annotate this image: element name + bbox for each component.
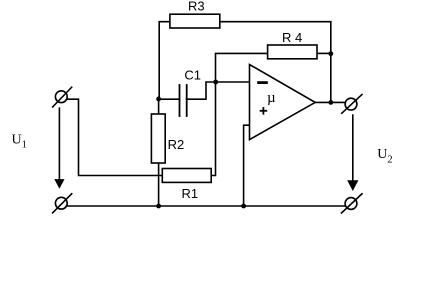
- resistor R1: [162, 169, 211, 183]
- capacitor C1: [180, 85, 187, 116]
- wire C1 right plate to op-amp inverting input: [187, 82, 250, 99]
- node A junction (R3/C1/R2): [156, 97, 161, 102]
- wire input terminal to R1 left lead: [67, 99, 163, 175]
- terminal input top-left: [55, 91, 67, 103]
- op-amp U1 triangle: [250, 65, 316, 140]
- wire node A to C1 left plate: [159, 98, 180, 100]
- terminal output top-right: [345, 98, 357, 110]
- wire R2 top lead: [158, 99, 160, 114]
- junction R2 to ground rail: [156, 204, 161, 209]
- svg-text:C1: C1: [184, 67, 201, 82]
- op-amp plus sign: [260, 107, 268, 115]
- svg-text:R 4: R 4: [282, 30, 302, 45]
- resistor R2: [151, 114, 165, 163]
- wire R4 right lead: [317, 52, 331, 54]
- terminal ground bottom-right: [345, 198, 357, 210]
- svg-text:R1: R1: [182, 186, 199, 201]
- arrowhead U1: [54, 179, 64, 189]
- junction inverting input node: [213, 80, 218, 85]
- wire R3 left lead down to node A: [159, 22, 170, 99]
- wire op-amp non-inverting input to ground rail: [244, 125, 250, 206]
- resistor R3: [170, 14, 220, 28]
- wire R2 bottom lead to ground rail: [158, 163, 160, 206]
- resistor R4: [268, 45, 317, 59]
- wire R3 right lead to output node: [220, 22, 331, 103]
- arrowhead U2: [347, 180, 358, 191]
- arrow U2: [352, 115, 354, 181]
- junction output node: [328, 100, 333, 105]
- terminal ground bottom-left: [55, 197, 67, 209]
- wire R4 left lead down to R1 right lead: [211, 53, 267, 175]
- op-amp minus sign: [257, 81, 268, 84]
- wire op-amp output: [315, 101, 345, 103]
- svg-text:R2: R2: [168, 137, 185, 152]
- arrow U1: [58, 108, 60, 180]
- junction R4 right / feedback: [328, 51, 333, 56]
- svg-text:R3: R3: [188, 0, 205, 14]
- svg-text:µ: µ: [267, 90, 276, 106]
- wire ground rail: [67, 205, 345, 207]
- junction op-amp + to ground rail: [241, 204, 246, 209]
